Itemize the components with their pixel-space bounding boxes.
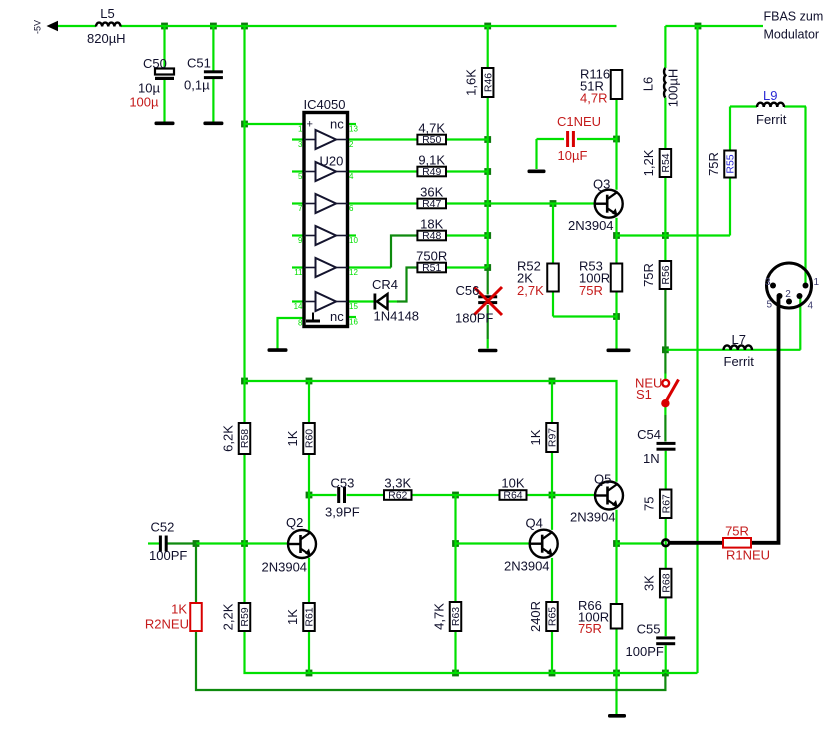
svg-text:1,2K: 1,2K xyxy=(641,149,656,176)
svg-text:100PF: 100PF xyxy=(149,548,187,563)
svg-text:R65: R65 xyxy=(547,607,559,626)
svg-text:nc: nc xyxy=(330,309,344,324)
svg-text:1: 1 xyxy=(298,125,303,134)
svg-text:2,7K: 2,7K xyxy=(517,283,544,298)
svg-text:-5V: -5V xyxy=(33,20,43,34)
svg-text:3: 3 xyxy=(765,277,771,288)
svg-text:Q3: Q3 xyxy=(593,177,610,192)
svg-text:Q5: Q5 xyxy=(594,472,611,487)
svg-text:4,7K: 4,7K xyxy=(431,603,446,630)
svg-text:240R: 240R xyxy=(528,601,543,632)
svg-text:15: 15 xyxy=(349,302,358,311)
svg-text:4,7R: 4,7R xyxy=(580,90,607,105)
svg-text:75R: 75R xyxy=(578,621,602,636)
svg-text:R59: R59 xyxy=(239,607,251,626)
svg-text:R2NEU: R2NEU xyxy=(145,617,189,632)
svg-text:R60: R60 xyxy=(304,429,316,448)
svg-text:R51: R51 xyxy=(422,262,441,274)
svg-text:100PF: 100PF xyxy=(626,644,664,659)
svg-text:R62: R62 xyxy=(388,490,407,502)
svg-text:12: 12 xyxy=(349,268,358,277)
svg-text:4: 4 xyxy=(808,301,814,312)
svg-text:L5: L5 xyxy=(100,6,114,21)
svg-text:75: 75 xyxy=(642,497,657,511)
svg-text:1,6K: 1,6K xyxy=(464,69,479,96)
svg-text:+: + xyxy=(307,119,313,131)
svg-text:2N3904: 2N3904 xyxy=(262,560,308,575)
svg-text:Modulator: Modulator xyxy=(764,28,820,42)
svg-text:R47: R47 xyxy=(422,198,441,210)
svg-text:L7: L7 xyxy=(732,332,746,347)
svg-text:IC4050: IC4050 xyxy=(304,97,346,112)
svg-text:5: 5 xyxy=(298,172,303,181)
svg-text:75R: 75R xyxy=(641,263,656,287)
svg-text:C56: C56 xyxy=(456,283,480,298)
svg-text:2: 2 xyxy=(785,289,791,300)
svg-text:2,2K: 2,2K xyxy=(220,603,235,630)
svg-text:100µ: 100µ xyxy=(129,95,159,110)
svg-text:750R: 750R xyxy=(416,249,447,264)
svg-text:4,7K: 4,7K xyxy=(418,121,445,136)
svg-text:2N3904: 2N3904 xyxy=(568,218,614,233)
svg-text:1K: 1K xyxy=(285,430,300,446)
svg-text:0,1µ: 0,1µ xyxy=(184,78,210,93)
svg-text:C51: C51 xyxy=(187,56,211,71)
svg-text:10K: 10K xyxy=(501,476,524,491)
svg-text:C1NEU: C1NEU xyxy=(557,114,601,129)
svg-text:10µ: 10µ xyxy=(138,81,160,96)
svg-text:1K: 1K xyxy=(171,602,187,617)
svg-text:Ferrit: Ferrit xyxy=(724,354,755,369)
svg-text:75R: 75R xyxy=(725,524,749,539)
svg-text:R68: R68 xyxy=(660,573,672,592)
svg-text:9,1K: 9,1K xyxy=(418,153,445,168)
svg-text:R67: R67 xyxy=(660,494,672,513)
svg-text:L6: L6 xyxy=(641,77,656,91)
svg-text:1K: 1K xyxy=(528,429,543,445)
svg-text:4: 4 xyxy=(349,172,354,181)
svg-text:L9: L9 xyxy=(763,88,777,103)
svg-text:Ferrit: Ferrit xyxy=(756,112,787,127)
svg-text:nc: nc xyxy=(330,117,344,132)
svg-text:14: 14 xyxy=(294,302,303,311)
svg-text:R48: R48 xyxy=(422,230,441,242)
svg-text:5: 5 xyxy=(766,300,772,311)
svg-text:3,3K: 3,3K xyxy=(384,476,411,491)
svg-text:R97: R97 xyxy=(547,428,559,447)
svg-text:18K: 18K xyxy=(420,217,443,232)
svg-text:C55: C55 xyxy=(637,622,661,637)
svg-text:R50: R50 xyxy=(422,134,441,146)
svg-text:C54: C54 xyxy=(637,427,661,442)
svg-text:11: 11 xyxy=(294,268,303,277)
svg-text:Q2: Q2 xyxy=(286,515,303,530)
svg-text:75R: 75R xyxy=(579,283,603,298)
svg-text:13: 13 xyxy=(349,125,358,134)
svg-text:1N: 1N xyxy=(643,451,660,466)
svg-text:CR4: CR4 xyxy=(372,277,398,292)
svg-text:R58: R58 xyxy=(239,429,251,448)
svg-text:R63: R63 xyxy=(450,607,462,626)
svg-text:9: 9 xyxy=(298,236,303,245)
svg-text:C52: C52 xyxy=(151,520,175,535)
svg-text:10µF: 10µF xyxy=(558,148,588,163)
svg-text:R1NEU: R1NEU xyxy=(726,548,770,563)
svg-text:100µH: 100µH xyxy=(666,69,681,108)
svg-text:S1: S1 xyxy=(636,387,652,402)
svg-text:820µH: 820µH xyxy=(87,31,126,46)
svg-text:2N3904: 2N3904 xyxy=(504,559,550,574)
svg-text:75R: 75R xyxy=(706,152,721,176)
svg-text:7: 7 xyxy=(298,204,303,213)
svg-text:3: 3 xyxy=(298,140,303,149)
svg-text:3,9PF: 3,9PF xyxy=(325,505,360,520)
svg-text:6: 6 xyxy=(349,204,354,213)
svg-text:3K: 3K xyxy=(642,575,657,591)
svg-text:R49: R49 xyxy=(422,166,441,178)
svg-text:1N4148: 1N4148 xyxy=(374,309,420,324)
svg-text:R54: R54 xyxy=(660,153,672,172)
svg-text:2N3904: 2N3904 xyxy=(570,510,616,525)
svg-text:R61: R61 xyxy=(304,607,316,626)
svg-text:1: 1 xyxy=(814,277,820,288)
svg-text:C50: C50 xyxy=(143,56,167,71)
svg-text:180PF: 180PF xyxy=(455,311,493,326)
svg-text:R55: R55 xyxy=(725,154,737,173)
svg-text:36K: 36K xyxy=(420,185,443,200)
svg-text:2: 2 xyxy=(349,140,354,149)
svg-text:1K: 1K xyxy=(285,609,300,625)
svg-text:6,2K: 6,2K xyxy=(220,425,235,452)
svg-text:10: 10 xyxy=(349,236,358,245)
svg-text:R56: R56 xyxy=(660,265,672,284)
svg-text:C53: C53 xyxy=(331,476,355,491)
svg-text:U20: U20 xyxy=(320,154,344,169)
svg-text:R64: R64 xyxy=(503,490,522,502)
svg-text:R46: R46 xyxy=(482,73,494,92)
svg-text:Q4: Q4 xyxy=(526,516,543,531)
svg-text:8: 8 xyxy=(298,319,303,328)
svg-text:FBAS zum: FBAS zum xyxy=(764,10,824,24)
svg-text:16: 16 xyxy=(349,318,358,327)
